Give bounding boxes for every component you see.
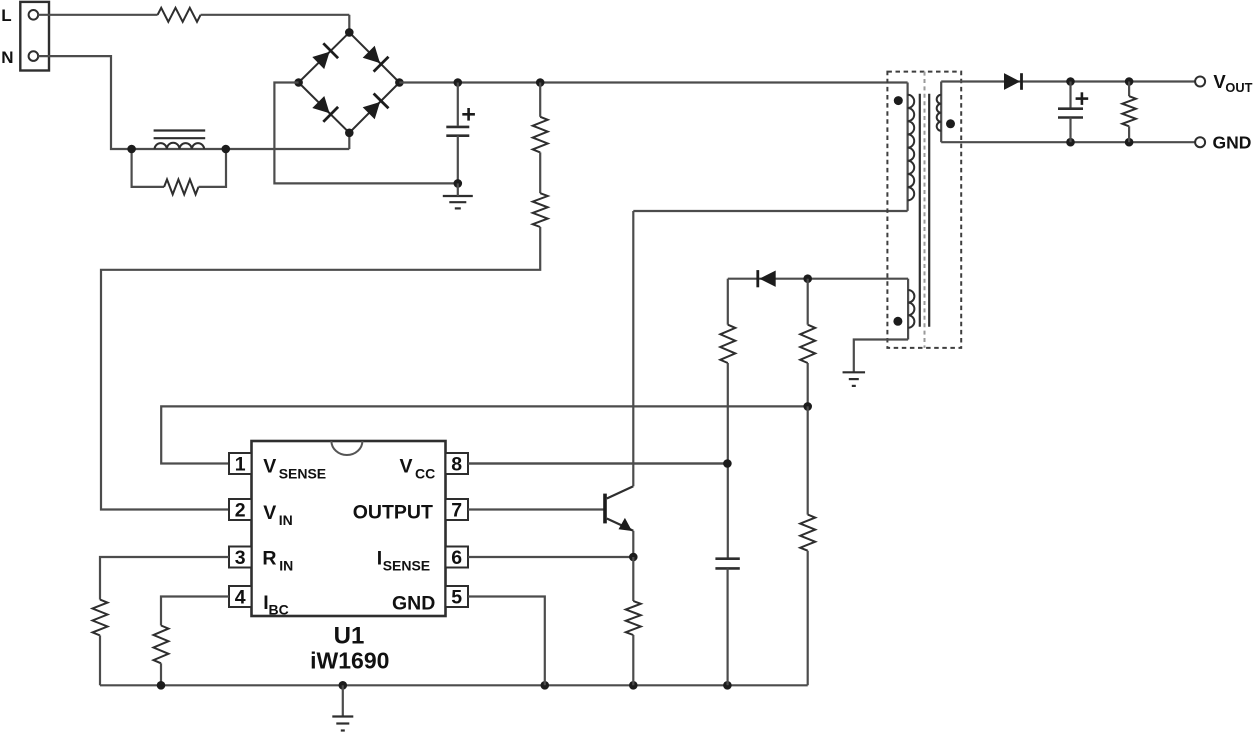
- svg-text:4: 4: [235, 587, 246, 609]
- svg-text:V: V: [263, 456, 276, 478]
- svg-text:8: 8: [451, 454, 462, 476]
- svg-text:IN: IN: [279, 512, 293, 528]
- svg-text:7: 7: [451, 500, 462, 522]
- svg-text:IN: IN: [279, 558, 293, 574]
- svg-text:N: N: [1, 48, 13, 67]
- svg-text:L: L: [1, 6, 11, 25]
- svg-text:V: V: [263, 502, 276, 524]
- svg-text:U1: U1: [334, 623, 365, 650]
- svg-text:3: 3: [235, 547, 246, 569]
- svg-text:iW1690: iW1690: [310, 648, 389, 674]
- svg-text:OUTPUT: OUTPUT: [353, 502, 433, 524]
- svg-text:6: 6: [451, 547, 462, 569]
- svg-text:R: R: [262, 548, 276, 570]
- svg-text:SENSE: SENSE: [383, 558, 430, 574]
- svg-text:SENSE: SENSE: [279, 466, 326, 482]
- svg-text:1: 1: [235, 454, 246, 476]
- svg-text:CC: CC: [415, 466, 435, 482]
- svg-text:OUT: OUT: [1225, 80, 1252, 95]
- svg-text:2: 2: [235, 500, 246, 522]
- svg-text:BC: BC: [269, 602, 289, 618]
- svg-text:5: 5: [451, 587, 462, 609]
- svg-text:GND: GND: [392, 593, 435, 615]
- svg-text:GND: GND: [1213, 133, 1252, 153]
- svg-text:I: I: [377, 548, 382, 570]
- svg-text:V: V: [400, 456, 413, 478]
